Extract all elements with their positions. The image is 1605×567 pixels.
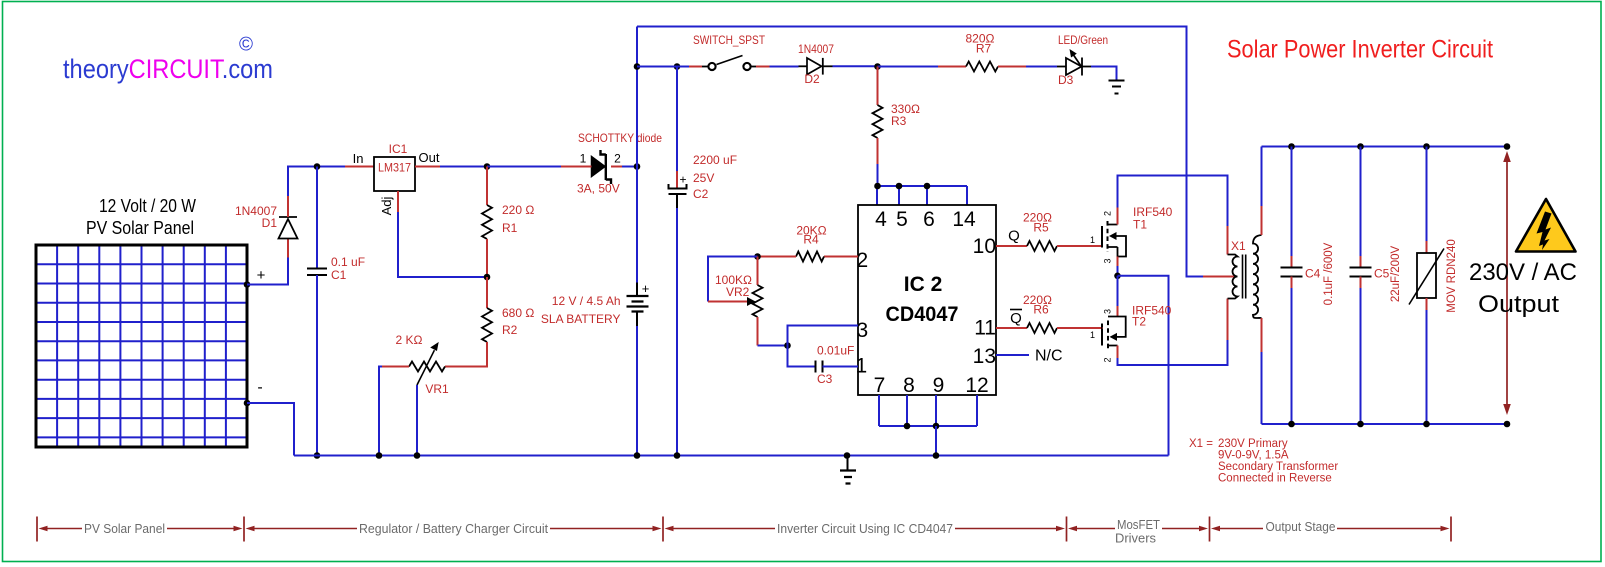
junction output top — [1504, 143, 1511, 150]
svg-text:Adj: Adj — [379, 196, 394, 215]
resistor R6 220 ohm — [1027, 323, 1103, 333]
svg-text:12 V / 4.5 Ah: 12 V / 4.5 Ah — [552, 294, 621, 308]
section divider tick 3 — [662, 517, 664, 542]
svg-text:Output Stage: Output Stage — [1266, 519, 1336, 534]
wire ground bus to rail — [935, 426, 937, 456]
svg-text:IC 2: IC 2 — [904, 273, 943, 296]
svg-text:2200 uF: 2200 uF — [693, 153, 737, 167]
output terminal arrows 230V AC — [1503, 151, 1511, 415]
diode D1 1N4007 — [279, 196, 298, 239]
svg-text:R7: R7 — [976, 42, 992, 56]
section arrow Regulator / Battery Charger Circuit — [246, 521, 662, 536]
svg-text:10: 10 — [973, 235, 996, 258]
svg-text:-: - — [257, 379, 262, 396]
junction pin3/C3 node — [784, 342, 791, 349]
junction bus pin9 — [933, 423, 940, 430]
svg-text:0.1uF /600V: 0.1uF /600V — [1323, 242, 1335, 305]
node panel - terminal — [244, 400, 251, 407]
wire battery node to switch — [637, 66, 689, 68]
svg-text:PV Solar Panel: PV Solar Panel — [86, 218, 194, 238]
high voltage warning sign — [1516, 199, 1576, 252]
svg-text:+: + — [642, 281, 650, 296]
junction MOV top — [1423, 143, 1430, 150]
svg-text:C4: C4 — [1305, 267, 1321, 281]
svg-text:6: 6 — [923, 208, 935, 231]
svg-text:R6: R6 — [1033, 303, 1049, 317]
capacitor C5 22uF/200V — [1350, 147, 1372, 425]
resistor R2 680 ohm — [445, 277, 492, 367]
svg-text:25V: 25V — [693, 171, 714, 185]
junction C1 top — [314, 163, 321, 170]
svg-text:4: 4 — [875, 208, 887, 231]
capacitor C3 0.01uF — [816, 361, 823, 373]
wire pin 11 to R6 — [996, 327, 1027, 329]
wire panel + to D1 anode — [247, 257, 288, 285]
potentiometer VR2 100K ohm — [747, 257, 763, 346]
svg-text:230V / AC: 230V / AC — [1469, 259, 1577, 286]
wire LM317 Out to R1 junction — [415, 166, 440, 168]
svg-text:3: 3 — [1103, 258, 1113, 263]
junction battery top node — [634, 163, 641, 170]
junction VR1 left to rail — [376, 452, 383, 459]
wire LED cathode to ground — [1091, 67, 1117, 81]
transformer X1 — [1228, 235, 1262, 318]
svg-text:2: 2 — [857, 249, 869, 272]
wire battery node up to switch line and top rail corner — [636, 27, 638, 167]
svg-text:PV Solar Panel: PV Solar Panel — [84, 521, 165, 536]
svg-text:9: 9 — [933, 374, 945, 397]
resistor R4 20K ohm — [758, 252, 825, 262]
svg-text:T2: T2 — [1132, 315, 1146, 329]
junction C5 bottom — [1357, 421, 1364, 428]
svg-text:IC1: IC1 — [389, 142, 408, 156]
wire R3 junction to R7 — [878, 66, 939, 68]
svg-text:LED/Green: LED/Green — [1058, 33, 1108, 47]
svg-text:+: + — [679, 173, 686, 187]
svg-text:C2: C2 — [693, 187, 709, 201]
resistor R5 220 ohm — [1027, 241, 1102, 251]
svg-text:8: 8 — [903, 374, 915, 397]
svg-text:SWITCH_SPST: SWITCH_SPST — [693, 33, 766, 47]
svg-text:theoryCIRCUIT.com: theoryCIRCUIT.com — [63, 54, 273, 84]
svg-text:680 Ω: 680 Ω — [502, 306, 534, 320]
junction VR1 wiper to rail — [414, 452, 421, 459]
junction C1 bottom — [314, 452, 321, 459]
wire VR2 bottom to C3 node — [758, 345, 788, 347]
ground rail — [294, 455, 1169, 457]
junction bus pin8 — [904, 423, 911, 430]
svg-text:Q: Q — [1008, 228, 1020, 245]
wire In node to C1 — [316, 167, 318, 269]
junction C2 branch — [674, 63, 681, 70]
capacitor C1 0.1uF — [307, 269, 327, 276]
svg-text:CD4047: CD4047 — [886, 303, 959, 326]
junction Out node — [484, 163, 491, 170]
wire pin 13 N/C — [996, 354, 1029, 356]
transistor T2 IRF540 — [1102, 276, 1126, 358]
section divider tick 6 — [1450, 517, 1452, 542]
svg-text:T1: T1 — [1133, 218, 1147, 232]
junction bus pin5 — [896, 183, 903, 190]
wire junction to pin 3 — [788, 326, 859, 346]
junction R3 branch — [874, 63, 881, 70]
junction ground — [844, 452, 851, 459]
section divider tick 4 — [1066, 517, 1068, 542]
junction bus pin6 — [924, 183, 931, 190]
wire output top rail — [1262, 146, 1508, 148]
svg-text:R1: R1 — [502, 221, 518, 235]
svg-text:0.1 uF: 0.1 uF — [331, 255, 365, 269]
svg-text:SLA BATTERY: SLA BATTERY — [541, 312, 621, 326]
svg-text:VR2: VR2 — [726, 285, 750, 299]
svg-text:Secondary Transformer: Secondary Transformer — [1218, 461, 1338, 473]
IC U2 CD4047 — [858, 205, 996, 395]
svg-text:Output: Output — [1478, 291, 1559, 318]
label X1 transformer note — [1189, 438, 1338, 485]
wire pin 10 to R5 — [996, 245, 1027, 247]
svg-text:22uF/200V: 22uF/200V — [1390, 246, 1402, 303]
svg-text:3: 3 — [1103, 309, 1113, 314]
svg-text:©: © — [239, 35, 253, 56]
resistor R3 330 ohm — [873, 67, 883, 187]
svg-text:Regulator / Battery Charger Ci: Regulator / Battery Charger Circuit — [359, 521, 548, 536]
varistor MOV RDN240 — [1409, 147, 1444, 425]
svg-text:D2: D2 — [804, 72, 820, 86]
wire secondary top to output rail — [1261, 206, 1263, 235]
svg-text:R5: R5 — [1033, 221, 1049, 235]
wire output bottom rail — [1262, 423, 1508, 425]
svg-text:2: 2 — [1103, 357, 1113, 362]
junction bus pin4 — [874, 183, 881, 190]
resistor R7 820 ohm — [966, 62, 1057, 72]
wire C1 to ground rail — [316, 275, 318, 456]
wire D1 cathode to In node — [288, 167, 345, 197]
wire junction to C3 — [788, 346, 816, 367]
wire junction to VR2 wiper — [708, 257, 758, 302]
svg-text:D3: D3 — [1058, 73, 1074, 87]
svg-text:+: + — [257, 267, 266, 284]
battery 12V 4.5Ah SLA — [627, 281, 650, 326]
wire C3 to pin 1 — [823, 366, 859, 368]
svg-text:X1: X1 — [1231, 239, 1246, 253]
junction MOV bottom — [1423, 421, 1430, 428]
capacitor C2 2200uF 25V electrolytic — [669, 173, 687, 195]
svg-text:In: In — [353, 151, 364, 166]
svg-text:Connected in Reverse: Connected in Reverse — [1218, 473, 1332, 485]
wire LM317 Adj to R1/R2 junction — [397, 191, 399, 212]
wire sources to ground rail — [1118, 276, 1169, 456]
schottky diode 3A 50V — [585, 150, 637, 184]
svg-text:1: 1 — [1090, 235, 1095, 245]
svg-text:SCHOTTKY diode: SCHOTTKY diode — [578, 131, 662, 145]
wire switch node to C2 — [676, 67, 678, 172]
wire pin 2 to R4 — [824, 256, 858, 258]
junction C4 top — [1288, 143, 1295, 150]
svg-text:1: 1 — [580, 152, 587, 166]
svg-text:12: 12 — [965, 374, 988, 397]
svg-text:D1: D1 — [262, 216, 278, 230]
solar panel PV1 — [36, 245, 247, 447]
section arrow PV Solar Panel — [39, 521, 243, 536]
wire T2 gate from R6 — [1101, 327, 1104, 329]
svg-text:5: 5 — [896, 208, 908, 231]
svg-text:13: 13 — [973, 345, 996, 368]
svg-text:230V Primary: 230V Primary — [1218, 438, 1288, 450]
capacitor C4 0.1uF/600V — [1281, 147, 1303, 425]
regulator IC1 LM317 — [374, 157, 415, 191]
svg-text:220 Ω: 220 Ω — [502, 203, 534, 217]
section arrow Output Stage — [1211, 519, 1450, 534]
junction R1/R2/Adj — [484, 274, 491, 281]
svg-text:1N4007: 1N4007 — [798, 42, 834, 56]
svg-text:0.01uF: 0.01uF — [817, 344, 854, 358]
svg-text:R3: R3 — [891, 114, 907, 128]
section divider tick 2 — [243, 517, 245, 542]
section divider tick 1 — [36, 517, 38, 542]
diode D2 1N4007 — [799, 58, 833, 75]
wire T1 source to junction — [1117, 266, 1119, 276]
svg-text:2 KΩ: 2 KΩ — [396, 333, 423, 347]
wire switch to D2 — [756, 66, 770, 68]
wire secondary bottom to output rail — [1261, 318, 1263, 352]
wire battery - to ground rail — [636, 326, 638, 456]
wire D2 to R3 junction — [833, 65, 878, 67]
switch SPST — [702, 56, 756, 71]
svg-text:Inverter Circuit Using IC CD40: Inverter Circuit Using IC CD4047 — [777, 521, 953, 536]
wire top rail to transformer center tap — [637, 27, 1203, 277]
resistor R1 220 ohm — [482, 167, 492, 278]
svg-text:2: 2 — [614, 152, 621, 166]
svg-text:11: 11 — [974, 317, 996, 340]
svg-text:N/C: N/C — [1035, 348, 1063, 365]
svg-text:LM317: LM317 — [378, 161, 411, 175]
svg-text:X1 =: X1 = — [1189, 438, 1213, 450]
svg-text:9V-0-9V, 1.5A: 9V-0-9V, 1.5A — [1218, 450, 1289, 462]
svg-text:C5: C5 — [1374, 267, 1390, 281]
svg-text:Out: Out — [419, 150, 440, 165]
svg-text:14: 14 — [952, 208, 976, 231]
junction T1/T2 sources — [1114, 273, 1121, 280]
svg-text:C1: C1 — [331, 268, 347, 282]
LED D3 green — [1057, 49, 1091, 76]
svg-text:VR1: VR1 — [425, 382, 449, 396]
ground symbol (main rail) — [840, 456, 856, 484]
node panel + terminal — [244, 281, 251, 288]
svg-text:MOV RDN240: MOV RDN240 — [1446, 239, 1458, 313]
wire C2 to ground rail — [676, 194, 678, 208]
junction bus to rail — [933, 452, 940, 459]
svg-text:R2: R2 — [502, 323, 518, 337]
svg-text:12 Volt / 20 W: 12 Volt / 20 W — [99, 196, 196, 216]
svg-text:C3: C3 — [817, 372, 833, 386]
junction C5 top — [1357, 143, 1364, 150]
svg-text:Solar Power Inverter Circuit: Solar Power Inverter Circuit — [1227, 36, 1493, 64]
junction R4/VR2 — [754, 253, 761, 260]
svg-text:2: 2 — [1103, 211, 1113, 216]
wire Out junction to schottky anode — [487, 166, 561, 168]
svg-text:3A, 50V: 3A, 50V — [577, 182, 620, 196]
junction battery bottom — [634, 452, 641, 459]
ground symbol (LED) — [1109, 81, 1125, 94]
wire panel - to ground rail — [247, 403, 294, 456]
potentiometer VR1 2K ohm — [379, 343, 445, 456]
wire battery top lead — [636, 167, 638, 283]
transistor T1 IRF540 — [1102, 208, 1126, 267]
junction switch branch — [634, 63, 641, 70]
wire VDD bus to pins 4 5 6 14 — [877, 186, 967, 205]
svg-text:R4: R4 — [803, 233, 819, 247]
junction C2 bottom — [674, 452, 681, 459]
section divider tick 5 — [1209, 517, 1211, 542]
wire T1 drain to transformer primary top — [1118, 176, 1228, 227]
svg-text:7: 7 — [874, 374, 886, 397]
junction C4 bottom — [1288, 421, 1295, 428]
svg-text:1: 1 — [1090, 330, 1095, 340]
section arrow MosFET Drivers — [1068, 517, 1208, 546]
logo theoryCIRCUIT.com — [63, 35, 273, 85]
wire T2 drain to transformer primary bottom — [1118, 340, 1228, 365]
svg-text:3: 3 — [857, 319, 869, 342]
svg-text:Q: Q — [1010, 310, 1022, 327]
junction output bottom — [1504, 421, 1511, 428]
section arrow Inverter Circuit Using IC CD4047 — [665, 521, 1066, 536]
svg-text:Drivers: Drivers — [1115, 531, 1156, 546]
wire pins 7 8 9 12 to ground bus — [879, 395, 977, 426]
